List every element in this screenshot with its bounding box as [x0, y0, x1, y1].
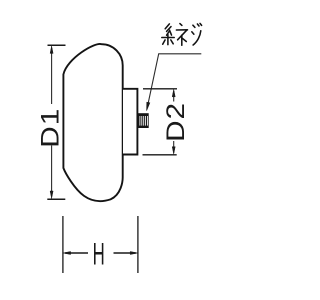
H right arrow — [114, 252, 136, 254]
D1 down arrowhead — [50, 191, 53, 199]
糸 — [165, 24, 169, 29]
H left extension line — [62, 216, 64, 273]
D2 up arrowhead — [172, 89, 175, 97]
leader line for 糸ネジ — [148, 54, 201, 105]
svg-text:D2: D2 — [161, 102, 189, 142]
D2 bottom extension line — [143, 154, 177, 156]
D2 down arrowhead — [172, 147, 175, 155]
D1 up arrowhead — [50, 46, 53, 54]
H right extension line — [137, 216, 139, 273]
label 糸ネジ (drawn strokes) — [162, 23, 202, 45]
H left arrow — [65, 252, 88, 254]
D2 dimension line lower segment — [173, 141, 175, 153]
ジ — [197, 24, 199, 26]
knob body outline — [63, 44, 122, 201]
leader arrowhead — [147, 102, 150, 110]
threaded stud — [138, 113, 149, 128]
D2 dimension line upper segment — [173, 91, 175, 102]
svg-text:D1: D1 — [36, 108, 64, 148]
D2 top extension line — [143, 88, 177, 90]
svg-text:H: H — [93, 237, 105, 272]
D1 dimension top tick — [48, 44, 66, 46]
neck (ferrule) — [123, 89, 137, 155]
D1 dimension line lower segment — [51, 146, 53, 197]
ネ — [180, 24, 182, 26]
D1 dimension bottom tick — [47, 198, 65, 200]
D1 dimension line upper segment — [51, 48, 53, 104]
